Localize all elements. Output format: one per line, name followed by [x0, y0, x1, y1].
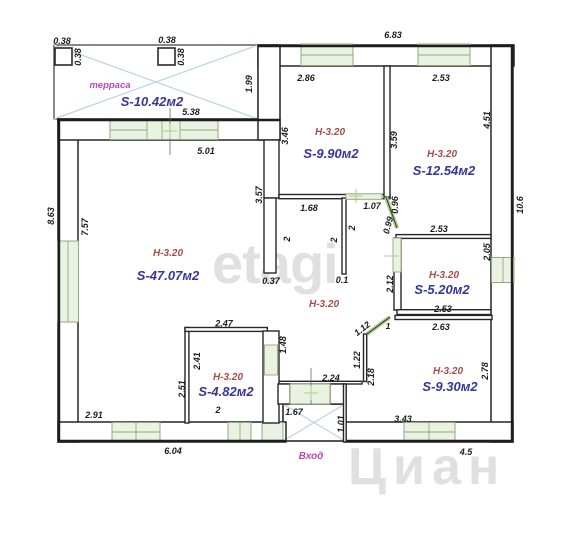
wall left exterior [58, 119, 78, 442]
left wall window mullion [67, 241, 69, 322]
svg-text:10.6: 10.6 [515, 195, 525, 214]
wall S-4.82 top [185, 328, 267, 332]
svg-text:2.53: 2.53 [433, 304, 452, 314]
svg-text:7.57: 7.57 [80, 217, 90, 236]
door green bottom wall near porch [262, 423, 283, 442]
svg-text:S-12.54м2: S-12.54м2 [413, 163, 476, 178]
svg-text:2.86: 2.86 [296, 73, 316, 83]
svg-text:0.38: 0.38 [158, 35, 176, 45]
svg-text:2.47: 2.47 [214, 319, 234, 329]
wall bottom-right exterior [345, 422, 513, 442]
door green S-9.90 bottom [346, 194, 382, 200]
svg-text:0.1: 0.1 [336, 275, 349, 285]
wall S-12.54/S-5.20 divider [396, 235, 491, 239]
svg-text:5.01: 5.01 [197, 146, 215, 156]
svg-text:Н-3.20: Н-3.20 [433, 366, 463, 377]
wall right exterior [491, 45, 513, 442]
window bottom wall 1 [112, 423, 160, 442]
wall hall bottom [278, 381, 362, 384]
svg-text:1.67: 1.67 [285, 407, 304, 417]
svg-text:1.01: 1.01 [336, 415, 346, 433]
window bottom wall 2 [228, 423, 251, 442]
terrace post 1 [55, 48, 72, 65]
wall S-5.20 bottom [397, 310, 491, 315]
svg-text:1.22: 1.22 [352, 351, 362, 369]
svg-text:терраса: терраса [89, 80, 130, 91]
outer wall edge emphasis [57, 45, 514, 441]
door leaf diagonal hall/S-12.54 [386, 197, 397, 228]
svg-text:0.37: 0.37 [262, 276, 281, 286]
top-left assembly mullions [146, 121, 148, 140]
window mullion lines [68, 55, 503, 442]
outer edge right wall [511, 45, 513, 441]
wall S-9.30 top [395, 315, 492, 319]
svg-text:3.43: 3.43 [394, 414, 412, 424]
svg-text:1.48: 1.48 [278, 336, 288, 354]
svg-text:2.53: 2.53 [431, 73, 450, 83]
svg-text:8.63: 8.63 [46, 207, 56, 225]
svg-text:2: 2 [347, 225, 357, 231]
window A top wall (S-9.90) [301, 44, 353, 66]
wall porch right side [344, 384, 347, 442]
svg-text:2: 2 [329, 237, 339, 243]
door green S-5.20 left wall [393, 238, 401, 272]
wall bottom-left exterior [58, 422, 286, 442]
svg-text:0.38: 0.38 [176, 48, 186, 66]
svg-text:0.38: 0.38 [73, 48, 83, 66]
terrace outline [54, 45, 258, 119]
outer edge top wall [258, 45, 514, 47]
wall top-right exterior [258, 45, 514, 66]
svg-text:3.57: 3.57 [254, 185, 264, 204]
wall hall stub right [342, 198, 346, 274]
svg-text:Вход: Вход [299, 451, 324, 462]
svg-text:Н-3.20: Н-3.20 [213, 372, 243, 383]
svg-text:6.83: 6.83 [384, 30, 402, 40]
exterior walls [58, 45, 514, 442]
door leaf diagonal hall/S-9.30 [367, 317, 390, 334]
svg-text:2.51: 2.51 [177, 380, 187, 399]
green cross mark window top-left [163, 124, 177, 138]
svg-text:1.68: 1.68 [300, 203, 318, 213]
outer edge left wall [58, 119, 60, 441]
terrace post 2 [158, 48, 175, 65]
right wall window mullion [502, 258, 504, 283]
svg-text:3.59: 3.59 [389, 131, 399, 149]
svg-text:Н-3.20: Н-3.20 [429, 270, 459, 281]
svg-text:2.78: 2.78 [480, 362, 490, 381]
svg-text:0.38: 0.38 [53, 36, 71, 46]
svg-text:S-9.90м2: S-9.90м2 [303, 146, 359, 161]
svg-text:2.41: 2.41 [192, 352, 202, 371]
svg-text:3.46: 3.46 [280, 126, 290, 145]
wall S-9.90 bottom [279, 195, 390, 199]
bottom window 1 mullions [112, 431, 160, 433]
svg-text:2.53: 2.53 [429, 224, 448, 234]
green cross mark porch door [304, 386, 318, 400]
bottom window 3 mullions [404, 431, 455, 433]
dimension extension line terrace/top-left wall [169, 108, 171, 155]
window left wall [58, 241, 79, 322]
porch X diagonals [283, 404, 345, 441]
window B mid-line [418, 54, 470, 56]
window B top wall (S-12.54) [418, 44, 470, 66]
svg-text:2.05: 2.05 [482, 242, 492, 262]
dimension extension line porch [310, 368, 312, 404]
svg-text:Циан: Циан [348, 438, 506, 496]
wall S-4.82 left [185, 328, 189, 424]
svg-text:S-4.82м2: S-4.82м2 [198, 384, 254, 399]
wall S-9.90/S-12.54 divider [384, 66, 390, 197]
wall S-9.30 left [364, 334, 367, 382]
svg-text:1: 1 [386, 321, 391, 331]
svg-text:2.63: 2.63 [431, 322, 450, 332]
green tick S-5.20 door [384, 255, 399, 257]
svg-text:Н-3.20: Н-3.20 [315, 127, 345, 138]
windows [58, 44, 515, 442]
svg-text:S-10.42м2: S-10.42м2 [121, 94, 184, 109]
svg-text:2.12: 2.12 [385, 275, 395, 294]
svg-text:2.18: 2.18 [366, 368, 376, 387]
outer edge bottom wall [58, 440, 286, 442]
svg-text:Н-3.20: Н-3.20 [309, 299, 339, 310]
terrace X diagonals [54, 45, 258, 119]
window right wall (S-5.20) [492, 258, 515, 283]
wall hall stub left [264, 198, 276, 273]
wall hall/big-room upper [264, 140, 279, 198]
svg-text:S-47.07м2: S-47.07м2 [137, 268, 200, 283]
svg-text:2.91: 2.91 [84, 410, 103, 420]
svg-text:2.24: 2.24 [321, 373, 340, 383]
svg-text:6.04: 6.04 [164, 446, 182, 456]
dimension labels horizontal [53, 30, 473, 457]
porch (вход) outline [283, 404, 345, 441]
bottom window 2 mullion [239, 423, 241, 442]
green cross mark S-9.90 door [349, 189, 363, 203]
window assembly top-left wall [110, 121, 218, 140]
svg-text:5.38: 5.38 [182, 107, 200, 117]
wall block porch left [278, 384, 290, 404]
svg-text:S-5.20м2: S-5.20м2 [414, 282, 470, 297]
window A mid-line [301, 54, 353, 56]
wall terrace/S-9.90 divider [258, 45, 280, 140]
svg-text:2: 2 [282, 236, 292, 242]
svg-text:S-9.30м2: S-9.30м2 [422, 379, 478, 394]
wall block porch right [330, 384, 346, 404]
svg-text:4.5: 4.5 [459, 447, 474, 457]
wall S-5.20 left [394, 238, 401, 310]
outer edge top-left wall [57, 119, 280, 121]
wall top-left exterior (below terrace) [58, 119, 280, 140]
svg-text:1.07: 1.07 [363, 201, 382, 211]
svg-text:0.96: 0.96 [390, 195, 400, 214]
svg-text:2: 2 [214, 405, 220, 415]
door green porch entry [290, 384, 330, 404]
interior walls [185, 66, 492, 442]
svg-text:1.99: 1.99 [244, 75, 254, 93]
window bottom wall 3 [404, 423, 455, 442]
door green S-4.82 right wall [265, 345, 278, 375]
svg-text:4.51: 4.51 [482, 111, 492, 130]
svg-text:Н-3.20: Н-3.20 [427, 149, 457, 160]
svg-text:Н-3.20: Н-3.20 [153, 248, 183, 259]
wall S-4.82 right [263, 331, 279, 423]
room labels [89, 80, 478, 462]
dimension labels rotated [46, 48, 525, 433]
